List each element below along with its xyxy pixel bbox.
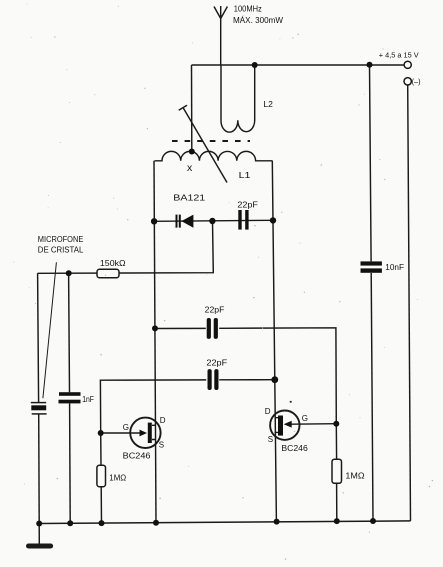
coil L1 (155, 151, 273, 160)
svg-text:S: S (159, 440, 164, 449)
wire left gate column with 1M (100, 433, 102, 465)
variable arrow of L1 (179, 105, 227, 182)
wire 10nF branch (370, 65, 372, 262)
terminal + (404, 61, 411, 68)
svg-text:1nF: 1nF (82, 395, 94, 404)
wire tank left wall down the page (154, 161, 156, 523)
coupling dashed line (172, 140, 250, 142)
wire tank bottom (154, 220, 273, 221)
svg-text:BC246: BC246 (123, 452, 151, 461)
wire negative terminal column (408, 85, 411, 521)
svg-text:150kΩ: 150kΩ (100, 259, 126, 268)
svg-text:x: x (187, 162, 193, 174)
microphone pointer line (43, 262, 57, 398)
svg-text:1MΩ: 1MΩ (109, 473, 126, 482)
wire +V corner drop to L1 tap (191, 65, 193, 152)
terminal - (404, 78, 411, 85)
transistor Q1 circle (130, 418, 160, 448)
svg-text:BA121: BA121 (173, 194, 206, 203)
wire 150k feed: corner up to diode junction (38, 221, 214, 273)
svg-text:S: S (268, 435, 273, 444)
varicap BA121 symbol (176, 215, 194, 228)
transistor Q2 circle (270, 411, 299, 440)
svg-text:(–): (–) (412, 77, 421, 86)
wire 1nF branch (68, 273, 71, 392)
wire right gate lead (292, 423, 337, 426)
capacitor 22pF tank plates (238, 210, 241, 230)
wire 22pF no2 row (100, 380, 274, 433)
wire left gate lead (101, 432, 140, 434)
svg-text:MÁX. 300mW: MÁX. 300mW (233, 16, 283, 25)
capacitor 22pF no1 plates (207, 318, 211, 339)
wire tank right wall down to transistor and rail (272, 161, 276, 522)
wire 22pF no1 row (155, 328, 336, 424)
svg-text:100MHz: 100MHz (234, 5, 262, 14)
ground (29, 524, 51, 547)
svg-text:L1: L1 (239, 171, 252, 180)
transistor Q1 stubs (152, 425, 156, 439)
junction dots (252, 62, 258, 68)
svg-text:G: G (123, 423, 129, 432)
svg-text:+ 4,5 a 15 V: + 4,5 a 15 V (379, 51, 420, 60)
transistor Q1 channel bar (148, 423, 152, 443)
svg-text:22pF: 22pF (237, 200, 258, 209)
svg-text:L2: L2 (263, 100, 273, 109)
svg-text:DE CRISTAL: DE CRISTAL (38, 246, 84, 255)
svg-text:D: D (160, 416, 166, 425)
svg-text:MICROFONE: MICROFONE (38, 235, 84, 244)
svg-text:22pF: 22pF (205, 305, 225, 314)
svg-text:BC246: BC246 (281, 444, 308, 453)
resistor 150k box (97, 269, 119, 277)
transistor Q2 stubs (275, 418, 279, 433)
capacitor 1nF plates (59, 392, 81, 396)
coil L2 (221, 65, 255, 132)
transistor Q2 channel bar (278, 416, 283, 436)
transistor Q2 gate arrow (284, 421, 292, 428)
resistor 1M right box (332, 459, 342, 483)
svg-text:1MΩ: 1MΩ (345, 471, 364, 480)
svg-text:D: D (265, 407, 271, 416)
resistor 1M left box (97, 465, 106, 487)
antenna (214, 6, 227, 65)
wire L2 right leg feed (254, 65, 256, 121)
wire right gate column with 1M (335, 424, 337, 460)
svg-text:10nF: 10nF (385, 263, 404, 272)
capacitor 22pF no2 plates (208, 369, 212, 390)
microphone crystal symbol (31, 403, 47, 414)
capacitor 10nF plates (361, 261, 382, 265)
wire microphone branch (38, 273, 39, 402)
wire bottom rail (39, 521, 410, 524)
wire top rail (192, 64, 405, 66)
svg-text:G: G (302, 414, 308, 423)
transistor Q1 gate arrow (140, 430, 148, 437)
svg-text:22pF: 22pF (206, 359, 227, 368)
